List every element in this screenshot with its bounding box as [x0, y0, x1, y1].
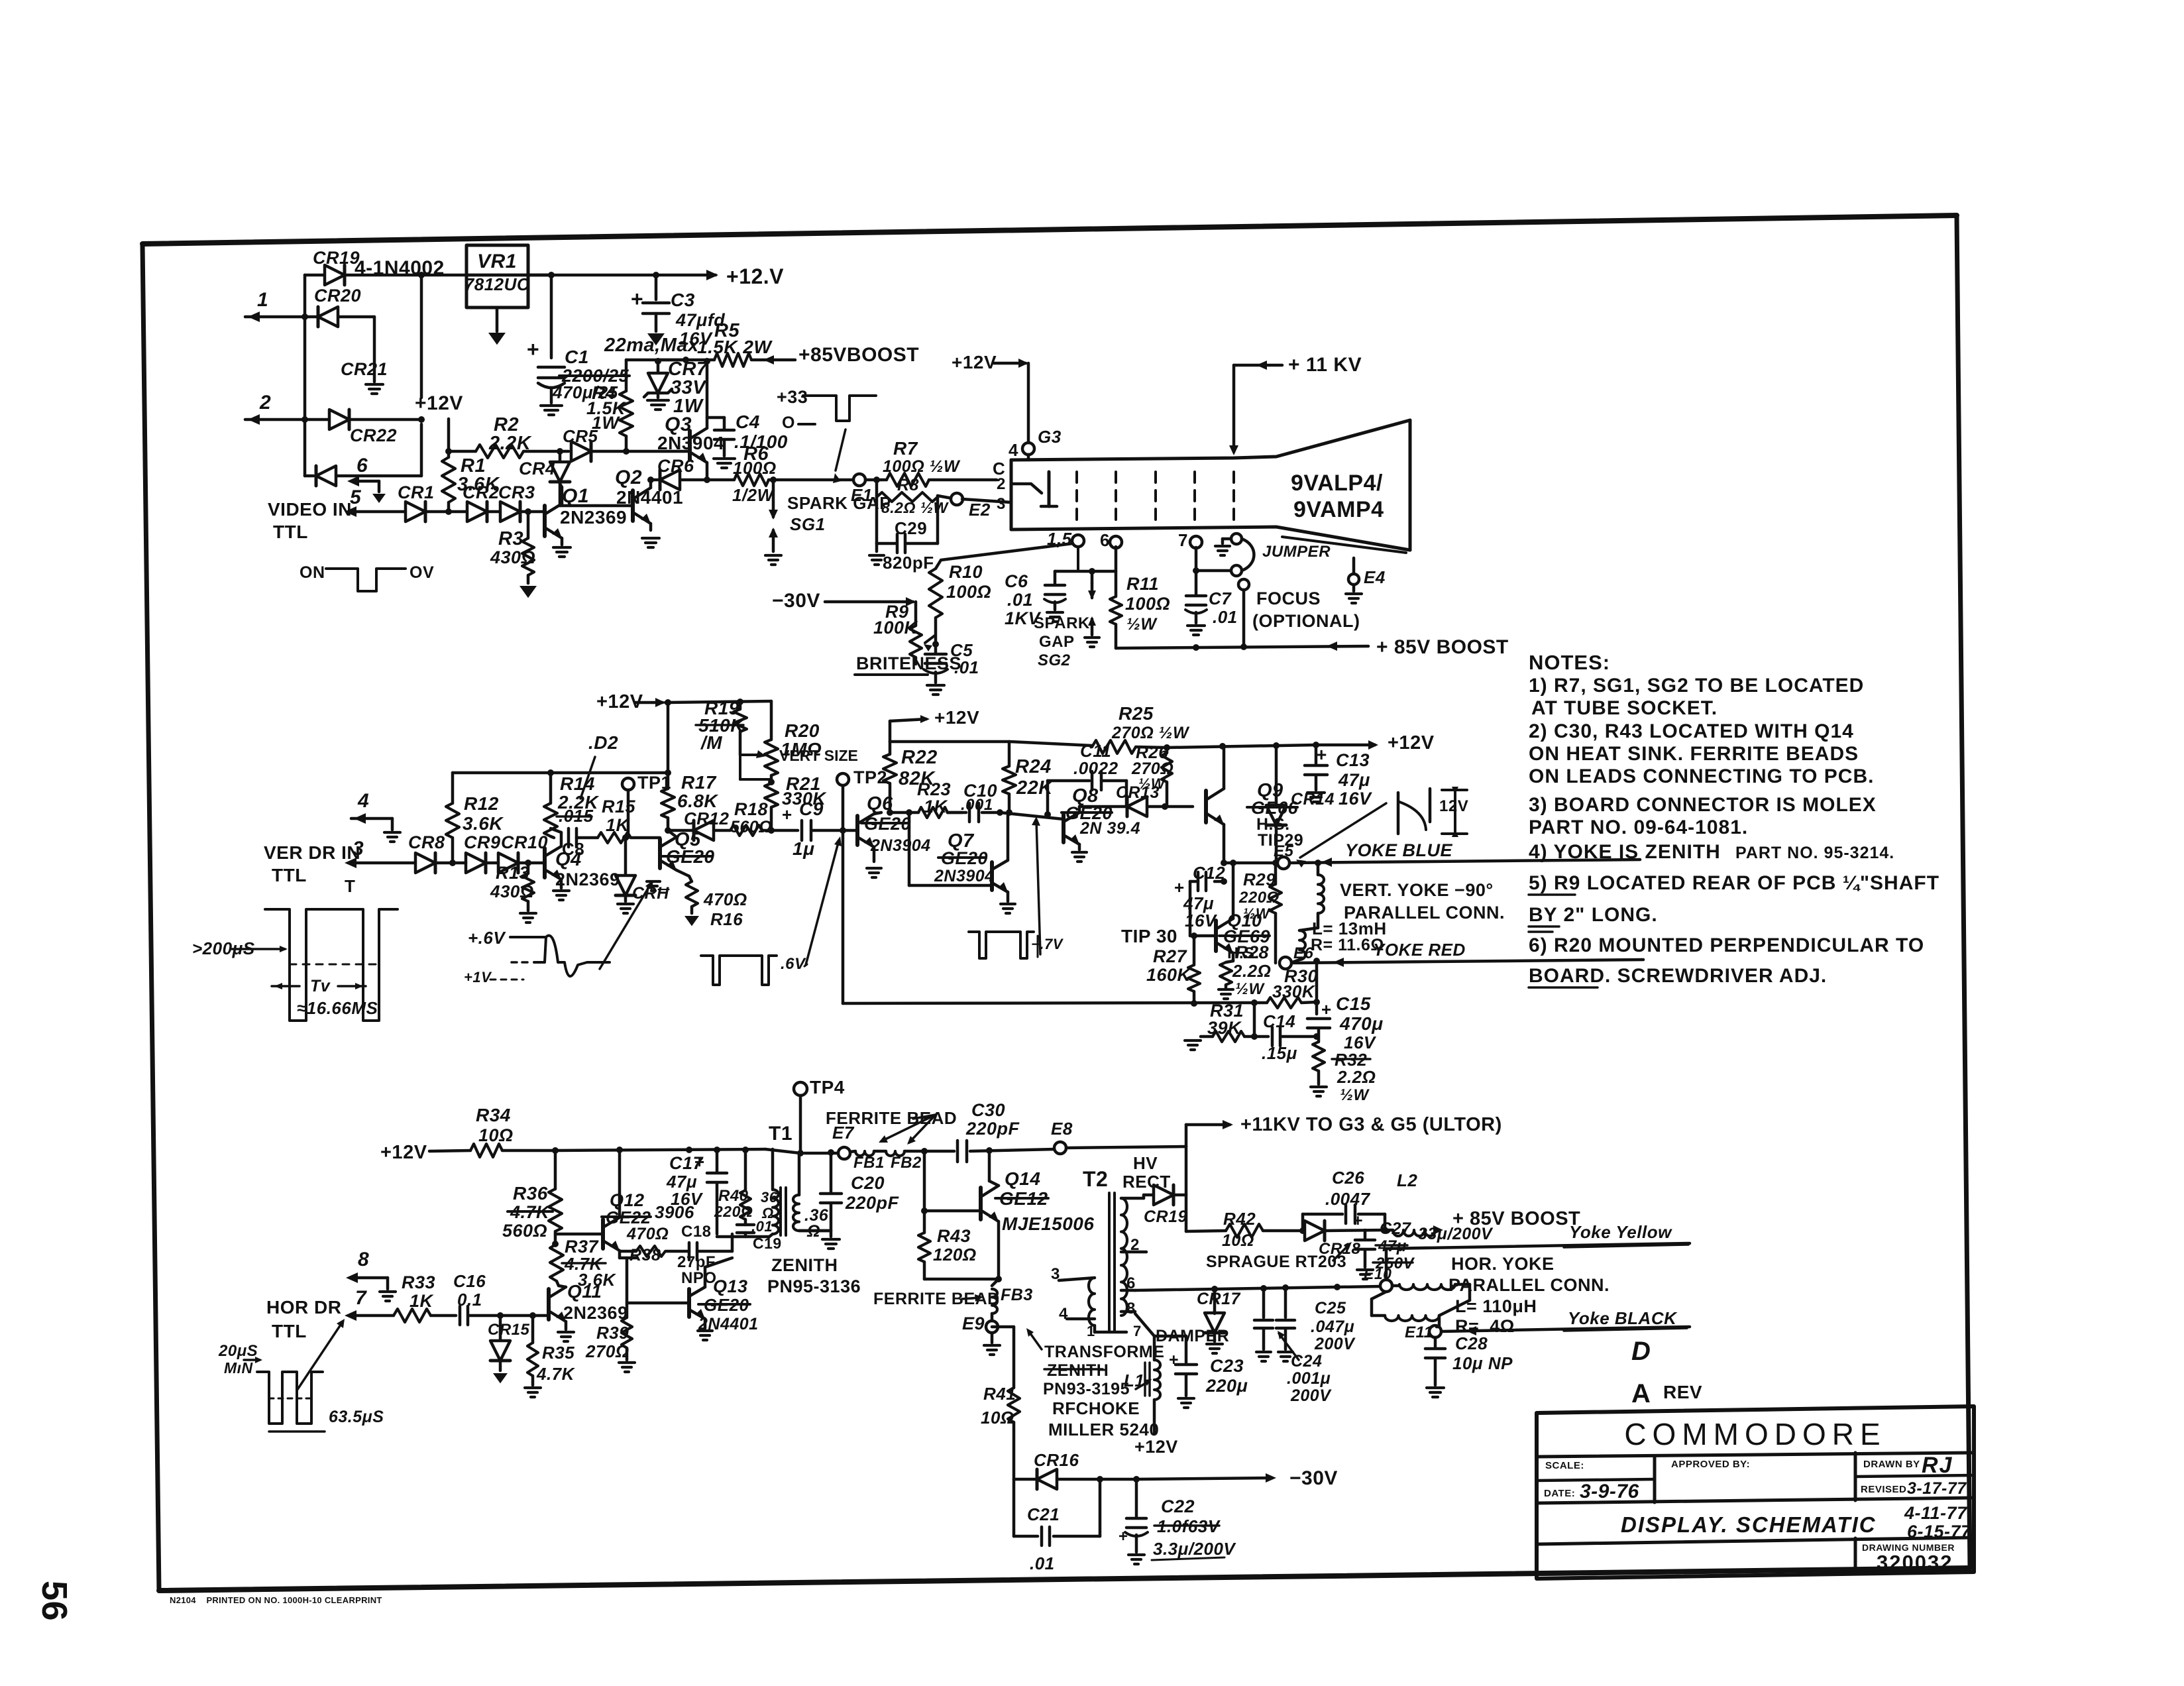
- svg-text:PN95-3136: PN95-3136: [767, 1276, 861, 1296]
- spark gap SG2: [1091, 571, 1094, 583]
- svg-text:200V: 200V: [1314, 1335, 1356, 1353]
- arrow to CR11: [600, 884, 651, 969]
- svg-text:CR5: CR5: [563, 426, 598, 446]
- svg-text:63.5μS: 63.5μS: [329, 1408, 384, 1426]
- svg-text:+12V: +12V: [952, 352, 997, 372]
- svg-text:FB2: FB2: [891, 1154, 922, 1172]
- svg-text:R35: R35: [542, 1343, 574, 1363]
- wire E6 down: [1315, 961, 1319, 1002]
- svg-text:+.6V: +.6V: [468, 928, 506, 948]
- svg-text:VIDEO IN: VIDEO IN: [268, 499, 352, 520]
- svg-text:7: 7: [355, 1287, 367, 1309]
- svg-text:CR3: CR3: [498, 482, 535, 502]
- capacitor C25: [1284, 1288, 1287, 1318]
- rail continue right: [1167, 745, 1316, 748]
- yoke black wire: [1441, 1327, 1690, 1331]
- svg-text:DRAWN BY: DRAWN BY: [1863, 1459, 1920, 1470]
- svg-text:C21: C21: [1027, 1504, 1060, 1524]
- svg-text:+: +: [1321, 999, 1332, 1019]
- svg-text:T2: T2: [1083, 1167, 1108, 1191]
- svg-text:2.2Ω: 2.2Ω: [1232, 961, 1271, 981]
- svg-text:PART NO. 95-3214.: PART NO. 95-3214.: [1735, 844, 1894, 862]
- svg-text:470Ω: 470Ω: [626, 1225, 669, 1243]
- svg-text:R27: R27: [1153, 946, 1188, 966]
- svg-text:+: +: [1316, 744, 1327, 765]
- svg-text:BRITENESS: BRITENESS: [856, 653, 961, 673]
- svg-text:C26: C26: [1332, 1168, 1364, 1188]
- svg-text:470μ: 470μ: [1339, 1013, 1384, 1034]
- svg-text:+12V: +12V: [380, 1142, 427, 1163]
- svg-text:E4: E4: [1364, 567, 1386, 587]
- svg-text:C1: C1: [565, 347, 589, 367]
- diode CR22: [305, 475, 313, 478]
- svg-text:VERT. YOKE −90°: VERT. YOKE −90°: [1340, 880, 1494, 900]
- svg-text:.047μ: .047μ: [1311, 1318, 1354, 1336]
- svg-text:MıN: MıN: [224, 1359, 253, 1377]
- svg-text:CR10: CR10: [501, 832, 548, 852]
- svg-text:GAP: GAP: [1039, 633, 1075, 651]
- svg-text:E9: E9: [962, 1314, 985, 1333]
- svg-text:2N2369: 2N2369: [560, 507, 627, 528]
- svg-text:+: +: [1119, 1528, 1128, 1545]
- svg-text:Q2: Q2: [615, 467, 642, 488]
- waveform -.7V: [969, 932, 1034, 958]
- svg-text:3: 3: [353, 838, 364, 860]
- ferrite bead FB3: [992, 1279, 999, 1286]
- svg-text:E5: E5: [1274, 842, 1294, 860]
- svg-text:ZENITH: ZENITH: [771, 1255, 838, 1275]
- svg-text:.0022: .0022: [1073, 758, 1119, 778]
- svg-text:7: 7: [1133, 1323, 1142, 1339]
- svg-text:1.5K 2W: 1.5K 2W: [697, 337, 773, 357]
- resistor R11: [1115, 547, 1118, 596]
- transformer label pointer: [1028, 1331, 1042, 1349]
- svg-text:T: T: [345, 876, 355, 896]
- svg-text:100Ω: 100Ω: [1125, 594, 1170, 614]
- svg-text:.01: .01: [1213, 607, 1238, 627]
- svg-text:R18: R18: [734, 799, 768, 819]
- capacitor C1: [548, 272, 555, 278]
- wire bridge rails: [303, 275, 307, 476]
- svg-text:10μ NP: 10μ NP: [1452, 1353, 1513, 1373]
- svg-text:C28: C28: [1455, 1333, 1488, 1353]
- svg-text:RJ: RJ: [1922, 1453, 1953, 1478]
- svg-text:C30: C30: [971, 1100, 1005, 1120]
- svg-text:.6V: .6V: [781, 955, 806, 973]
- svg-text:L2: L2: [1397, 1170, 1417, 1190]
- svg-text:½W: ½W: [1243, 905, 1271, 922]
- diode CR20: [318, 307, 338, 327]
- svg-text:CR14: CR14: [1291, 790, 1335, 809]
- svg-text:27pF: 27pF: [677, 1253, 716, 1271]
- svg-text:1: 1: [257, 289, 268, 311]
- capacitor C15: [1315, 1002, 1319, 1014]
- svg-text:C27: C27: [1380, 1219, 1411, 1238]
- CRT tube envelope: [1011, 420, 1410, 460]
- node E6 yoke red: [1280, 957, 1291, 969]
- rail +12V mid right: [1009, 742, 1092, 746]
- svg-text:+: +: [694, 1152, 705, 1172]
- svg-text:3-17-77: 3-17-77: [1907, 1479, 1967, 1498]
- svg-text:330K: 330K: [1272, 982, 1316, 1001]
- svg-text:TTL: TTL: [273, 522, 308, 542]
- svg-text:MJE15006: MJE15006: [1002, 1213, 1094, 1234]
- svg-text:+85VBOOST: +85VBOOST: [798, 344, 919, 366]
- svg-text:3.6K: 3.6K: [463, 813, 504, 834]
- capacitor small 1: [1262, 1288, 1266, 1318]
- svg-text:22ma,Max: 22ma,Max: [604, 335, 700, 356]
- svg-text:+ 11 KV: + 11 KV: [1288, 354, 1362, 376]
- svg-text:120Ω: 120Ω: [933, 1245, 977, 1264]
- svg-text:VERT SIZE: VERT SIZE: [779, 747, 858, 764]
- svg-text:(OPTIONAL): (OPTIONAL): [1252, 611, 1360, 631]
- svg-text:+: +: [1353, 1211, 1363, 1230]
- svg-text:.01: .01: [751, 1218, 773, 1235]
- wire TP2 to Q6: [843, 829, 857, 832]
- svg-text:Q1: Q1: [562, 485, 589, 507]
- svg-text:−30V: −30V: [772, 590, 820, 612]
- svg-text:5: 5: [350, 486, 362, 508]
- svg-text:+: +: [782, 805, 792, 824]
- svg-text:SCALE:: SCALE:: [1545, 1460, 1584, 1471]
- connector pin 1: [245, 315, 317, 319]
- zener CR7: [657, 361, 660, 371]
- svg-text:R13: R13: [496, 863, 529, 883]
- svg-text:20μS: 20μS: [218, 1342, 258, 1360]
- svg-text:+: +: [631, 287, 643, 311]
- capacitor C4: [707, 416, 724, 420]
- svg-text:4) YOKE IS ZENITH: 4) YOKE IS ZENITH: [1529, 841, 1721, 863]
- svg-text:560Ω: 560Ω: [502, 1221, 547, 1241]
- svg-text:220μ: 220μ: [1205, 1376, 1248, 1396]
- svg-text:−.7V: −.7V: [1031, 936, 1064, 952]
- diode CR21: [329, 410, 349, 429]
- hor yoke coils: [1392, 1284, 1399, 1288]
- svg-text:R24: R24: [1015, 756, 1052, 777]
- svg-text:TTL: TTL: [272, 865, 307, 885]
- svg-text:HOR. YOKE: HOR. YOKE: [1451, 1254, 1555, 1274]
- svg-text:1/2W: 1/2W: [732, 485, 775, 505]
- CRT grid dashes: [1075, 472, 1078, 522]
- svg-text:BY 2" LONG.: BY 2" LONG.: [1529, 904, 1658, 926]
- svg-text:VER DR IN: VER DR IN: [264, 842, 360, 863]
- wire +11KV corner: [1185, 1125, 1188, 1147]
- svg-text:½W: ½W: [1235, 980, 1266, 998]
- ground Q5 alt: [647, 880, 660, 883]
- svg-text:16V: 16V: [671, 1189, 704, 1209]
- capacitor C21: [1012, 1479, 1016, 1536]
- wire +12V mid-2: [889, 721, 892, 742]
- yoke yellow wire: [1385, 1249, 1388, 1280]
- title block dividers: [1537, 1453, 1974, 1457]
- svg-text:CR19: CR19: [313, 248, 360, 268]
- svg-text:Yoke BLACK: Yoke BLACK: [1568, 1308, 1678, 1328]
- resistor R16: [689, 876, 692, 881]
- svg-text:2N3904: 2N3904: [934, 867, 995, 885]
- svg-text:FERRITE BEAD: FERRITE BEAD: [873, 1290, 1000, 1308]
- svg-text:/M: /M: [700, 732, 722, 753]
- arrow to Q8 wire: [1036, 820, 1040, 954]
- svg-text:COMMODORE: COMMODORE: [1624, 1417, 1886, 1451]
- svg-text:3.3μ/200V: 3.3μ/200V: [1153, 1539, 1236, 1559]
- svg-text:270Ω ½W: 270Ω ½W: [1111, 724, 1190, 742]
- svg-text:VR1: VR1: [477, 251, 517, 272]
- svg-text:2: 2: [259, 392, 271, 414]
- svg-text:2N3904: 2N3904: [870, 836, 931, 855]
- connector pin 6: [351, 480, 379, 483]
- wire to Q8: [1000, 813, 1064, 819]
- wire pin15 to R10: [936, 543, 1073, 569]
- svg-text:2.2Ω: 2.2Ω: [1337, 1067, 1376, 1087]
- svg-text:JUMPER: JUMPER: [1262, 543, 1331, 561]
- svg-text:C9: C9: [799, 799, 824, 819]
- title block frame: [1537, 1406, 1974, 1579]
- svg-text:A: A: [1631, 1379, 1651, 1408]
- svg-text:PARALLEL CONN.: PARALLEL CONN.: [1448, 1275, 1610, 1295]
- svg-text:R28: R28: [1235, 942, 1269, 962]
- diode CR19: [305, 274, 323, 277]
- wire R4/R5 top rail: [626, 359, 686, 362]
- svg-text:200V: 200V: [1290, 1386, 1332, 1405]
- svg-text:TIP 30: TIP 30: [1121, 926, 1177, 946]
- svg-text:3) BOARD CONNECTOR IS: 3) BOARD CONNECTOR IS MOLEX: [1529, 794, 1877, 816]
- svg-text:NOTES:: NOTES:: [1529, 651, 1610, 674]
- svg-text:PART NO. 09-64-1081.: PART NO. 09-64-1081.: [1529, 816, 1748, 838]
- svg-text:CR22: CR22: [350, 425, 397, 445]
- resistor R8: [873, 477, 880, 483]
- svg-text:C18: C18: [681, 1223, 712, 1241]
- svg-text:R14: R14: [560, 773, 595, 794]
- svg-text:E1: E1: [851, 485, 873, 505]
- svg-text:ON LEADS CONNECTING TO PCB: ON LEADS CONNECTING TO PCB.: [1529, 765, 1874, 787]
- connector pin 4 mid: [351, 817, 392, 820]
- svg-text:R12: R12: [464, 793, 499, 814]
- rail to T1: [555, 1149, 765, 1151]
- svg-text:100Ω ½W: 100Ω ½W: [883, 457, 961, 476]
- feedback wire down: [842, 830, 845, 1003]
- svg-text:C3: C3: [671, 290, 695, 310]
- svg-text:2: 2: [997, 475, 1006, 493]
- wire Q2 base: [560, 504, 633, 508]
- svg-text:4-1N4002: 4-1N4002: [355, 257, 445, 279]
- svg-text:TP2: TP2: [853, 767, 887, 787]
- svg-text:ON: ON: [300, 563, 325, 582]
- svg-text:9VAMP4: 9VAMP4: [1293, 497, 1384, 522]
- svg-text:CR21: CR21: [341, 359, 388, 379]
- spark gap SG1: [772, 480, 775, 490]
- svg-text:L= 110μH: L= 110μH: [1455, 1296, 1537, 1316]
- svg-text:REV: REV: [1663, 1382, 1702, 1402]
- svg-text:+12.V: +12.V: [726, 264, 784, 288]
- capacitor C9: [771, 829, 798, 832]
- svg-text:+12V: +12V: [1388, 732, 1435, 754]
- svg-text:3-9-76: 3-9-76: [1580, 1481, 1639, 1502]
- svg-text:AT TUBE SOCKET.: AT TUBE SOCKET.: [1531, 697, 1718, 719]
- svg-text:FOCUS: FOCUS: [1256, 589, 1321, 608]
- svg-text:CR9: CR9: [464, 832, 501, 852]
- svg-text:4: 4: [357, 790, 369, 812]
- node E4: [1352, 558, 1356, 574]
- T2 pin stubs: [1121, 1197, 1144, 1200]
- svg-text:E8: E8: [1051, 1119, 1073, 1139]
- svg-text:NPO: NPO: [681, 1269, 717, 1287]
- svg-text:56: 56: [34, 1581, 74, 1621]
- svg-text:5) R9 LOCATED REAR OF PCB: 5) R9 LOCATED REAR OF PCB ¼"SHAFT: [1529, 872, 1939, 894]
- svg-text:6) R20 MOUNTED PERPENDICUL: 6) R20 MOUNTED PERPENDICULAR TO: [1529, 934, 1924, 956]
- svg-text:R3: R3: [498, 528, 523, 549]
- svg-text:R33: R33: [402, 1272, 435, 1292]
- svg-text:6: 6: [1100, 530, 1110, 550]
- svg-text:½W: ½W: [1126, 615, 1158, 634]
- wire to Q3 base: [626, 450, 690, 453]
- svg-text:+12V: +12V: [934, 707, 979, 728]
- test point TP1: [622, 778, 634, 790]
- test point TP2: [837, 773, 849, 785]
- wire Q14 base: [923, 1151, 926, 1211]
- wire +85V chain: [1185, 1195, 1188, 1231]
- connector pin 2: [245, 418, 328, 421]
- svg-text:OV: OV: [409, 563, 434, 582]
- svg-text:8: 8: [358, 1249, 369, 1270]
- connector pin 8: [350, 1276, 388, 1280]
- svg-text:C15: C15: [1336, 993, 1371, 1014]
- svg-text:.D2: .D2: [588, 732, 618, 753]
- svg-text:CR17: CR17: [1197, 1290, 1241, 1308]
- svg-text:CR16: CR16: [1034, 1450, 1079, 1470]
- svg-text:220pF: 220pF: [965, 1119, 1020, 1139]
- svg-text:C22: C22: [1161, 1496, 1195, 1516]
- wire C6 to pin line: [1055, 570, 1116, 573]
- svg-text:CR15: CR15: [488, 1321, 530, 1339]
- svg-text:CR19: CR19: [1144, 1208, 1187, 1226]
- CRT cathode: [1011, 484, 1042, 493]
- svg-text:CR8: CR8: [408, 832, 445, 852]
- svg-text:R36: R36: [513, 1183, 548, 1204]
- svg-text:RFCHOKE: RFCHOKE: [1052, 1398, 1140, 1418]
- svg-text:+: +: [527, 337, 539, 361]
- svg-text:C6: C6: [1005, 571, 1028, 591]
- svg-text:R34: R34: [476, 1105, 511, 1125]
- svg-text:FB3: FB3: [1001, 1286, 1033, 1304]
- svg-text:FERRITE BEAD: FERRITE BEAD: [826, 1108, 957, 1128]
- svg-text:R10: R10: [949, 562, 983, 582]
- svg-text:7812UC: 7812UC: [464, 274, 530, 294]
- vert yoke coils: [1317, 863, 1320, 875]
- svg-text:SG2: SG2: [1038, 651, 1071, 669]
- svg-text:.0047: .0047: [1325, 1189, 1371, 1209]
- svg-text:47μ: 47μ: [1338, 770, 1370, 790]
- svg-text:+11KV TO G3 & G5 (ULTOR): +11KV TO G3 & G5 (ULTOR): [1240, 1114, 1502, 1135]
- svg-text:−30V: −30V: [1289, 1467, 1338, 1489]
- waveform .6V mid: [701, 956, 777, 985]
- svg-text:Yoke Yellow: Yoke Yellow: [1569, 1222, 1672, 1242]
- svg-text:2N 39.4: 2N 39.4: [1079, 819, 1140, 838]
- svg-text:7: 7: [1178, 530, 1188, 550]
- wire +85V boost bottom: [1116, 646, 1368, 648]
- svg-text:SPRAGUE RT203: SPRAGUE RT203: [1206, 1253, 1346, 1271]
- svg-text:R25: R25: [1119, 703, 1154, 724]
- svg-text:470Ω: 470Ω: [703, 889, 747, 909]
- wire -30V: [1136, 1478, 1272, 1479]
- svg-text:+1V: +1V: [464, 969, 492, 985]
- feedback wire top: [453, 771, 668, 775]
- svg-text:Tᴠ: Tᴠ: [310, 977, 331, 995]
- svg-text:.15μ: .15μ: [1262, 1043, 1297, 1063]
- svg-text:BOARD. SCREWDRIVER ADJ.: BOARD. SCREWDRIVER ADJ.: [1529, 965, 1827, 987]
- svg-text:APPROVED BY:: APPROVED BY:: [1671, 1459, 1750, 1470]
- svg-text:2) C30, R43 LOCATED WITH: 2) C30, R43 LOCATED WITH Q14: [1529, 720, 1854, 742]
- svg-text:4-11-77: 4-11-77: [1904, 1503, 1968, 1523]
- capacitor C29: [875, 496, 879, 543]
- diode CR18: [1305, 1221, 1325, 1241]
- svg-text:4.7K: 4.7K: [536, 1364, 576, 1384]
- diode CR11: [624, 838, 628, 875]
- svg-text:R17: R17: [681, 772, 717, 793]
- svg-text:CR2: CR2: [463, 482, 500, 502]
- wire pin6 damper rail: [1135, 1286, 1380, 1290]
- svg-text:2N2369: 2N2369: [555, 870, 620, 889]
- svg-text:C23: C23: [1210, 1356, 1244, 1376]
- svg-text:C16: C16: [453, 1271, 486, 1291]
- arrow to E5: [1300, 803, 1386, 858]
- svg-text:T1: T1: [769, 1123, 792, 1145]
- svg-text:R15: R15: [602, 797, 636, 816]
- svg-text:16V: 16V: [1185, 911, 1218, 930]
- svg-text:C20: C20: [851, 1173, 885, 1193]
- svg-text:CR1: CR1: [398, 482, 435, 502]
- svg-text:PN93-3195: PN93-3195: [1043, 1380, 1130, 1398]
- svg-text:REVISED: REVISED: [1861, 1484, 1906, 1495]
- capacitor C22: [1135, 1479, 1138, 1516]
- svg-text:R11: R11: [1126, 574, 1159, 594]
- svg-text:ON HEAT SINK. FERRITE: ON HEAT SINK. FERRITE BEADS: [1529, 743, 1859, 765]
- svg-text:E2: E2: [969, 500, 991, 520]
- svg-text:100Ω: 100Ω: [733, 458, 777, 478]
- svg-text:SPARK: SPARK: [1034, 614, 1090, 632]
- capacitor C3: [655, 275, 658, 300]
- arrow to TP2 junction: [806, 840, 839, 965]
- node E1: [853, 474, 865, 486]
- svg-text:C7: C7: [1209, 589, 1232, 608]
- svg-text:320032: 320032: [1877, 1551, 1953, 1574]
- svg-text:C13: C13: [1336, 750, 1370, 770]
- svg-text:HV: HV: [1133, 1153, 1158, 1173]
- svg-text:YOKE BLUE: YOKE BLUE: [1345, 840, 1453, 860]
- capacitor C19: [737, 1223, 754, 1227]
- svg-text:L1: L1: [1124, 1371, 1144, 1390]
- node E5 yoke blue: [1221, 860, 1227, 866]
- svg-text:16V: 16V: [1338, 789, 1372, 809]
- svg-text:R20: R20: [785, 720, 820, 741]
- svg-text:220pF: 220pF: [845, 1193, 900, 1213]
- svg-text:.01: .01: [1030, 1553, 1055, 1573]
- test point TP4: [794, 1082, 807, 1096]
- svg-text:+12V: +12V: [1134, 1437, 1178, 1457]
- svg-text:C29: C29: [895, 518, 927, 538]
- svg-text:+ 85V BOOST: + 85V BOOST: [1376, 636, 1509, 658]
- svg-text:+12V: +12V: [415, 392, 463, 414]
- svg-text:9VALP4/: 9VALP4/: [1291, 471, 1383, 496]
- feedback long wire: [843, 1003, 1254, 1003]
- svg-text:2N4401: 2N4401: [616, 487, 683, 508]
- svg-text:820pF: 820pF: [883, 553, 934, 573]
- svg-text:.001μ: .001μ: [1287, 1369, 1331, 1388]
- svg-text:3: 3: [997, 495, 1006, 513]
- svg-text:DISPLAY. SCHEMATIC: DISPLAY. SCHEMATIC: [1621, 1512, 1877, 1537]
- capacitor C7: [1195, 547, 1198, 595]
- svg-text:.01: .01: [1007, 590, 1033, 610]
- capacitor C28: [1434, 1337, 1437, 1347]
